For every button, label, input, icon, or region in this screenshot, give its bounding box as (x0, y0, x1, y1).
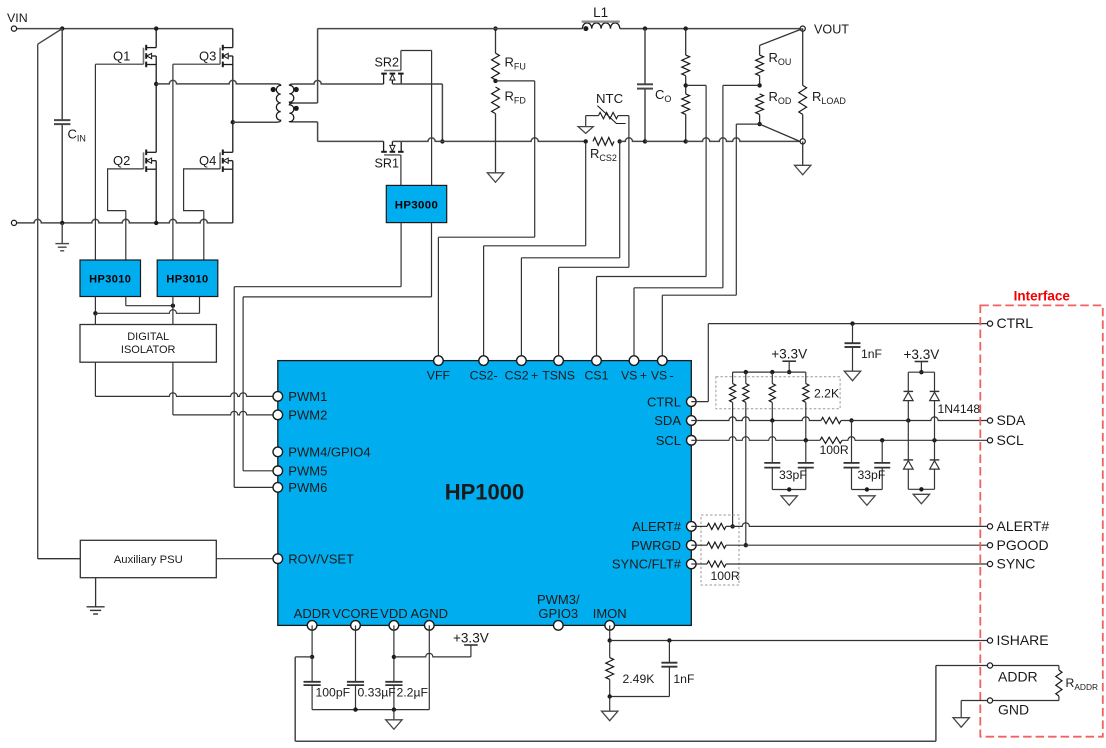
pin VFF (top) (427, 356, 451, 383)
svg-text:SDA: SDA (654, 413, 681, 428)
wire NTC left to ground (578, 116, 598, 134)
box Interface dashed (980, 288, 1103, 736)
wire VDD riser (393, 625, 395, 681)
pin VS + (top) (621, 356, 647, 383)
svg-text:PWM4/GPIO4: PWM4/GPIO4 (288, 445, 370, 460)
capacitor CIN (54, 29, 86, 223)
node SDA pullup junction (770, 418, 774, 422)
wire 33pF gnd bus b (852, 487, 883, 491)
wire IMON riser (609, 625, 611, 640)
wire left leg to primary (156, 80, 276, 84)
node IMON junction (608, 638, 612, 642)
power +3.3V (pullups) (771, 347, 807, 375)
node ADDR junction (310, 655, 314, 659)
node SDA after series (849, 418, 853, 422)
pin VCORE (bottom) (332, 606, 379, 630)
svg-text:VS -: VS - (651, 369, 674, 383)
svg-text:PWM2: PWM2 (288, 408, 327, 423)
ic HP1000 body (278, 361, 692, 626)
node SDA diode junction (906, 418, 910, 422)
wire SYNC row (726, 563, 987, 565)
svg-text:VIN: VIN (7, 11, 28, 25)
resistor SYNC series 100R (691, 561, 740, 583)
wire Q3 source (232, 65, 234, 123)
wire HP3010A in1 (94, 297, 96, 314)
wire AGND riser (428, 625, 430, 709)
wire clamp gnd bus (908, 487, 934, 491)
svg-text:VCORE: VCORE (332, 606, 379, 621)
svg-text:ADDR: ADDR (294, 606, 331, 621)
node VDD junction (392, 655, 396, 659)
wire CS1 sense (597, 85, 707, 360)
pin PWM4/GPIO4 (left) (273, 445, 371, 460)
svg-text:NTC: NTC (596, 91, 624, 106)
capacitor 100pF (304, 657, 351, 710)
power +3.3V (clamp) (903, 347, 939, 374)
pin ADDR (bottom) (294, 606, 331, 630)
resistor pullup SCL 2.2K (803, 372, 839, 440)
node IMON gnd junction (608, 694, 612, 698)
resistor divider lower (682, 94, 690, 141)
svg-text:SYNC/FLT#: SYNC/FLT# (612, 557, 682, 572)
pin PWRGD (right) (631, 538, 696, 553)
node SCL pullup junction (804, 438, 808, 442)
node ALERT# pullup junction (730, 524, 734, 528)
resistor ROD (756, 89, 792, 124)
ground clamp (913, 494, 929, 504)
node junction CIN top (60, 26, 64, 30)
wire clamp top bus (908, 371, 934, 373)
svg-text:CS2-: CS2- (470, 369, 498, 383)
svg-text:ISOLATOR: ISOLATOR (121, 344, 176, 356)
capacitor 33pF SDA a (764, 421, 780, 490)
diode clamp SDA high (904, 372, 914, 420)
wire SCL row (691, 437, 820, 441)
node SYNC interface terminal (987, 556, 1035, 572)
wire 33pF gnd bus a (772, 487, 806, 491)
capacitor 33pF SDA b (844, 421, 860, 490)
wire VS+ sense (634, 85, 760, 360)
wire Q2 drain (155, 84, 157, 152)
wire NTC right to TSNS (559, 116, 629, 361)
wire SR1 gate (400, 155, 402, 186)
svg-text:+3.3V: +3.3V (453, 631, 489, 646)
node 1nF IMON junction (667, 638, 671, 642)
node divider mid (684, 76, 688, 94)
ic HP3010 B (157, 260, 218, 297)
wire PSU to ROV/VSET (216, 558, 273, 560)
node RCS2 right (618, 139, 622, 143)
pin IMON (bottom) (593, 606, 627, 630)
wire HP3010A in2 (126, 297, 173, 306)
node junction CIN bottom (60, 221, 64, 225)
pin ALERT# (right) (632, 519, 696, 534)
wire Q2 source (154, 169, 158, 225)
svg-text:L1: L1 (593, 5, 608, 20)
node ISHARE interface terminal (987, 632, 1048, 648)
pin AGND (bottom) (411, 606, 449, 630)
wire CS2+ sense (521, 141, 619, 360)
capacitor Co (637, 29, 671, 142)
ic DIGITAL ISOLATOR (80, 325, 216, 363)
thermistor NTC (596, 91, 626, 124)
wire aux feed diagonal (38, 29, 63, 559)
svg-text:PWM6: PWM6 (288, 480, 327, 495)
resistor PWRGD series (691, 542, 726, 548)
svg-text:PWM1: PWM1 (288, 389, 327, 404)
svg-text:CS1: CS1 (585, 369, 609, 383)
wire isolator out2 to PWM2 (173, 362, 273, 415)
wire HP3000 out2 to PWM5 (243, 223, 431, 471)
svg-text:Q4: Q4 (199, 153, 216, 168)
svg-text:CTRL: CTRL (997, 315, 1034, 331)
pin CS2 + (top) (505, 356, 539, 383)
node VIN terminal + (7, 11, 28, 31)
wire aux feed into PSU (38, 558, 81, 560)
wire VCORE riser (355, 625, 357, 681)
pin TSNS (top) (542, 356, 575, 383)
ground below VOUT- (795, 141, 811, 174)
transistor Q3 (199, 45, 233, 67)
node divider bottom (684, 139, 688, 143)
diode clamp SDA low (904, 421, 914, 490)
transistor SR1 (375, 141, 404, 170)
node SCL diode junction (932, 438, 936, 442)
wire rail Co to divider (645, 140, 686, 142)
svg-text:Q1: Q1 (113, 49, 130, 64)
node SCL interface terminal (987, 432, 1024, 448)
node RFU RFD junction (493, 79, 497, 83)
wire decoupling gnd bus (312, 709, 429, 711)
svg-text:0.33µF: 0.33µF (358, 686, 396, 700)
svg-text:AGND: AGND (411, 606, 449, 621)
wire ISHARE row (610, 640, 987, 642)
pin SDA (right) (654, 413, 696, 428)
resistor divider upper (682, 29, 690, 76)
resistor pullup PWRGD (743, 372, 749, 545)
wire SDA row (691, 417, 821, 421)
wire secondary bottom to SR1 row (293, 122, 317, 141)
pin PWM5 (left) (273, 464, 327, 479)
label 33pF b (858, 468, 886, 482)
wire Q4 source (232, 169, 234, 223)
node VOUT terminal - (800, 139, 805, 144)
svg-text:100R: 100R (711, 569, 740, 583)
wire VS- sense (662, 124, 759, 361)
resistor ALERT# series (691, 523, 726, 529)
svg-text:Interface: Interface (1014, 288, 1071, 303)
resistor SDA series 100R (821, 417, 841, 423)
capacitor 1nF (IMON) (661, 641, 694, 697)
resistor RFU (492, 26, 526, 79)
box pullup dotted (716, 377, 840, 409)
node HP3010A in1 junction (93, 311, 97, 315)
svg-text:+3.3V: +3.3V (771, 347, 807, 362)
svg-text:ISHARE: ISHARE (997, 632, 1049, 648)
svg-text:PWM3/: PWM3/ (537, 592, 580, 607)
svg-text:GND: GND (998, 702, 1029, 718)
svg-text:SR1: SR1 (375, 157, 400, 171)
resistor RADDR (993, 666, 1098, 701)
wire Q2 gate (108, 169, 144, 260)
wire HP3000 out1 to PWM6 (234, 223, 401, 488)
wire IMON gnd bus (610, 696, 670, 698)
pin ROV/VSET (left) (273, 551, 354, 566)
wire VDD to +3.3V (394, 645, 471, 657)
svg-text:HP1000: HP1000 (445, 480, 525, 505)
pin PWM1 (left) (273, 389, 327, 404)
svg-text:ALERT#: ALERT# (632, 519, 682, 534)
wire rail RCS2 to Co (620, 138, 645, 142)
svg-text:SR2: SR2 (375, 56, 400, 70)
resistor pullup SDA (769, 372, 775, 420)
node bridge right midpoint (231, 120, 235, 124)
svg-text:1nF: 1nF (861, 347, 882, 361)
ground CTRL cap (844, 371, 860, 381)
wire Q4 gate (184, 169, 221, 260)
wire secondary gnd rail (392, 138, 585, 142)
node ALERT# interface terminal (987, 518, 1049, 534)
pin VDD (bottom) (380, 606, 407, 630)
inductor L1 (582, 5, 620, 31)
svg-text:2.2K: 2.2K (814, 387, 839, 401)
wire SCL row right (842, 437, 987, 441)
svg-text:ROV/VSET: ROV/VSET (288, 551, 354, 566)
svg-text:VOUT: VOUT (814, 23, 849, 37)
ic HP3000 (386, 185, 446, 222)
node PWRGD pullup junction (744, 543, 748, 547)
svg-text:SCL: SCL (656, 433, 681, 448)
capacitor 1nF (CTRL) (845, 324, 883, 372)
wire ADDR to interface (295, 657, 987, 741)
svg-text:VFF: VFF (427, 369, 451, 383)
svg-text:CS2 +: CS2 + (505, 369, 539, 383)
diode clamp SCL high (930, 372, 981, 440)
diode clamp SCL low (930, 440, 940, 489)
node ROD bottom junction (757, 122, 800, 141)
node GND interface terminal (987, 698, 1029, 718)
svg-text:TSNS: TSNS (542, 369, 575, 383)
svg-text:HP3010: HP3010 (166, 274, 208, 286)
capacitor 2.2uF (385, 682, 428, 710)
wire Q1 source (155, 65, 157, 84)
ground 33pF b (859, 496, 875, 506)
svg-text:PWRGD: PWRGD (631, 538, 681, 553)
svg-text:100pF: 100pF (316, 686, 351, 700)
pin CS1 (top) (585, 356, 609, 383)
svg-text:1N4148: 1N4148 (938, 402, 981, 416)
wire output rail (620, 28, 803, 30)
ic Auxiliary PSU (80, 540, 216, 577)
svg-text:IMON: IMON (593, 606, 627, 621)
node Co bottom (643, 139, 647, 143)
node VOUT terminal + (800, 23, 849, 37)
wire top input rail (17, 28, 233, 30)
transistor Q4 (199, 150, 233, 172)
node Co top (643, 26, 647, 30)
svg-text:CTRL: CTRL (647, 394, 681, 409)
wire SR2 row (293, 80, 383, 84)
svg-text:DIGITAL: DIGITAL (127, 331, 169, 343)
label 33pF a (779, 468, 807, 482)
svg-text:100R: 100R (820, 443, 849, 457)
wire isolator out1 to PWM1 (95, 362, 273, 396)
capacitor 33pF SCL a (798, 440, 814, 489)
transistor SR2 (375, 56, 404, 84)
svg-text:PGOOD: PGOOD (997, 537, 1049, 553)
transistor Q1 (113, 45, 156, 67)
resistor ROU (756, 29, 803, 86)
node CTRL 1nF junction (850, 321, 854, 325)
node ADDR interface terminal (987, 663, 1037, 685)
ground GND terminal (953, 701, 987, 728)
pin SYNC/FLT# (right) (612, 557, 696, 572)
wire right leg to primary (233, 121, 277, 123)
wire SR2 gate (401, 51, 432, 186)
svg-text:+3.3V: +3.3V (903, 347, 939, 362)
resistor RLOAD (799, 29, 847, 142)
transformer T1 primary winding (271, 84, 281, 122)
wire Q1 gate (95, 64, 143, 260)
node PGOOD interface terminal (987, 537, 1048, 553)
svg-text:HP3000: HP3000 (395, 200, 439, 212)
pin CTRL (right) (647, 394, 696, 409)
svg-text:ADDR: ADDR (998, 669, 1038, 685)
wire HP3010B in1 (172, 297, 174, 325)
node RCS2 left (584, 139, 588, 143)
wire PWRGD row (726, 544, 987, 546)
wire Q3 drain (232, 29, 234, 48)
ic HP3010 A (80, 260, 141, 297)
capacitor 0.33uF (347, 682, 396, 710)
wire SDA row right (841, 417, 987, 421)
svg-text:VDD: VDD (380, 606, 407, 621)
node bridge left midpoint (154, 82, 158, 86)
svg-text:GPIO3: GPIO3 (538, 606, 578, 621)
ground earth below CIN (55, 223, 69, 251)
wire VFF feed (438, 81, 534, 361)
resistor SCL series 100R (820, 437, 849, 457)
svg-text:HP3010: HP3010 (89, 274, 131, 286)
wire Q3 gate (173, 64, 220, 260)
ground IMON (602, 697, 618, 721)
pin PWM2 (left) (273, 408, 327, 423)
node SR2 drain junction (440, 139, 444, 143)
wire Q1 drain (154, 26, 158, 47)
wire isolator link row (95, 297, 199, 314)
svg-text:VS +: VS + (621, 369, 647, 383)
wire ALERT# row (726, 523, 987, 527)
svg-text:SDA: SDA (997, 412, 1026, 428)
wire pullup bus (733, 370, 806, 374)
resistor RCS2 (590, 138, 617, 164)
svg-text:1nF: 1nF (673, 672, 694, 686)
node SCL cap junction (880, 438, 884, 442)
node HP3010B in junction (171, 304, 175, 308)
wire Q4 drain (232, 122, 234, 152)
pin PWM3/GPIO3 (bottom) (537, 592, 580, 630)
wire isolator in left (94, 313, 96, 324)
power +3.3V (VDD) (453, 631, 489, 646)
node SDA interface terminal (987, 412, 1026, 428)
wire secondary top rail (318, 28, 583, 30)
ground below RFD (487, 141, 503, 182)
svg-text:SYNC: SYNC (997, 556, 1036, 572)
svg-text:2.49K: 2.49K (623, 672, 655, 686)
svg-text:2.2µF: 2.2µF (397, 686, 428, 700)
resistor 2.49K (606, 641, 655, 697)
resistor pullup ALERT# (730, 372, 736, 526)
pin PWM6 (left) (273, 480, 327, 495)
wire secondary centre tap riser (293, 29, 317, 103)
svg-text:SCL: SCL (997, 432, 1024, 448)
resistor RFD (492, 87, 527, 141)
svg-text:ALERT#: ALERT# (997, 518, 1050, 534)
wire bottom input rail (17, 219, 233, 223)
svg-text:33pF: 33pF (779, 468, 807, 482)
pin SCL (right) (656, 433, 696, 448)
ground decoupling bus (386, 710, 402, 730)
svg-text:PWM5: PWM5 (288, 464, 327, 479)
pin CS2- (top) (470, 356, 498, 383)
node ROU ROD junction (757, 83, 761, 87)
svg-text:Q2: Q2 (113, 153, 130, 168)
node VIN terminal - (11, 220, 16, 225)
node CTRL interface terminal (987, 315, 1033, 331)
node divider top junction (684, 26, 688, 30)
wire SR1 row left (318, 140, 384, 142)
svg-text:Auxiliary PSU: Auxiliary PSU (114, 554, 183, 566)
ground 33pF a (781, 496, 797, 506)
wire ADDR riser (311, 625, 313, 657)
transformer T1 secondary winding (289, 84, 298, 122)
wire CS2- sense (484, 141, 586, 360)
wire SR2 drain to node (392, 84, 442, 141)
transistor Q2 (113, 150, 156, 172)
svg-text:33pF: 33pF (858, 468, 886, 482)
wire rail divider to VOUT- (686, 138, 800, 142)
node bus VDD (392, 707, 396, 711)
pin VS - (top) (651, 356, 674, 383)
svg-text:Q3: Q3 (199, 49, 216, 64)
wire CTRL route (691, 324, 987, 402)
capacitor 33pF SCL b (874, 440, 890, 489)
box series-R dotted (701, 515, 739, 585)
node bus VCORE (353, 707, 357, 711)
ground below aux PSU (87, 578, 105, 614)
